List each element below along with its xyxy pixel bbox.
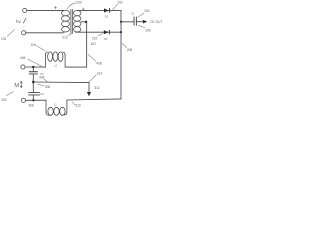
svg-text:312: 312 <box>94 86 100 90</box>
leader label 210 <box>98 34 103 36</box>
svg-text:314: 314 <box>97 72 103 76</box>
leader label 406 <box>28 59 42 66</box>
leader label 206 <box>138 25 145 28</box>
svg-text:C1: C1 <box>131 11 135 15</box>
leader label 202 <box>113 4 118 9</box>
photon arrow stroke <box>23 18 26 23</box>
svg-text:406: 406 <box>20 56 26 60</box>
svg-text:204: 204 <box>144 9 150 13</box>
wire cap C2 to dot <box>32 74 34 82</box>
capacitor C2 <box>29 71 37 73</box>
wire T3 to coil L2 <box>26 99 46 101</box>
svg-text:310: 310 <box>75 104 81 108</box>
output arrow <box>143 20 147 24</box>
transformer core <box>70 9 72 33</box>
inductor L2 <box>46 100 67 115</box>
svg-text:202: 202 <box>117 0 123 4</box>
junction dot bus-D2 <box>120 31 122 33</box>
inductor L1 <box>45 52 65 67</box>
svg-text:D2: D2 <box>104 37 108 41</box>
wire T4 to coil <box>25 66 45 68</box>
transformer T200 primary winding <box>62 10 70 32</box>
transformer T200 secondary winding <box>74 10 81 32</box>
leader label 314 <box>90 75 97 82</box>
wire secondary top to bus <box>78 9 122 11</box>
wire to cap C2 <box>32 67 34 71</box>
svg-text:hν: hν <box>16 19 22 24</box>
leader label 310 <box>73 102 76 105</box>
svg-text:212: 212 <box>62 36 68 40</box>
wire cap C3 down <box>32 95 34 100</box>
wire input bottom <box>26 32 64 34</box>
center tap stub <box>81 21 86 23</box>
mutual arrow <box>20 81 22 87</box>
arrow down <box>87 92 91 96</box>
svg-text:308: 308 <box>28 103 34 107</box>
leader label 302 <box>6 92 13 96</box>
svg-text:302: 302 <box>1 98 7 102</box>
svg-text:208: 208 <box>127 48 133 52</box>
svg-text:200: 200 <box>76 0 82 4</box>
leader label 304 <box>44 79 48 82</box>
terminal T1 (input top) <box>23 8 27 12</box>
junction dot bottom <box>32 99 34 101</box>
svg-text:304: 304 <box>39 75 45 79</box>
polarity plus secondary <box>82 8 84 10</box>
leader label 306 <box>38 84 44 86</box>
junction dot cap chain top <box>32 66 35 69</box>
leader label 408 <box>88 54 96 61</box>
svg-text:306: 306 <box>45 85 51 89</box>
wire mid down <box>88 83 90 93</box>
leader label 200 <box>67 3 76 10</box>
wire L2 to bus corner <box>67 99 121 100</box>
svg-text:L1: L1 <box>55 64 58 68</box>
diode D1 <box>104 8 109 12</box>
leader label 102 <box>7 30 14 37</box>
wire to coil L1 right <box>65 66 87 68</box>
svg-text:210: 210 <box>92 36 98 40</box>
wire bus to output cap <box>121 21 134 23</box>
svg-text:L2: L2 <box>54 103 57 107</box>
junction dot mid <box>32 81 35 84</box>
wire dot to cap C3 <box>32 82 34 92</box>
svg-text:402: 402 <box>91 42 97 46</box>
junction dot center tap <box>85 21 88 24</box>
polarity plus primary <box>54 6 56 8</box>
wire center tap vertical <box>86 22 88 67</box>
svg-text:404: 404 <box>31 43 37 47</box>
svg-text:M: M <box>14 83 19 89</box>
leader label 204 <box>138 13 144 17</box>
diode D2 <box>104 30 109 34</box>
wire cap to arrow <box>137 21 143 23</box>
bus vertical wire <box>120 10 122 98</box>
svg-text:206: 206 <box>146 28 152 32</box>
leader label 404 <box>37 46 45 51</box>
wire input top <box>27 9 64 11</box>
wire mid horizontal <box>33 81 89 84</box>
terminal T3 (bottom left) <box>21 98 25 102</box>
svg-text:102: 102 <box>1 37 7 41</box>
terminal T2 (input bottom) <box>22 31 26 35</box>
leader label 212 <box>68 34 73 36</box>
svg-text:408: 408 <box>96 61 102 65</box>
wire secondary bottom to bus <box>76 31 122 33</box>
junction dot bus-out <box>120 21 122 23</box>
svg-text:DC OUT: DC OUT <box>150 20 162 24</box>
terminal T4 (left mid) <box>21 65 25 69</box>
leader label 208 <box>122 44 127 48</box>
svg-text:D1: D1 <box>105 14 109 18</box>
capacitor Cout <box>133 17 135 25</box>
capacitor C3 <box>29 92 40 94</box>
svg-text:C3: C3 <box>40 92 44 96</box>
